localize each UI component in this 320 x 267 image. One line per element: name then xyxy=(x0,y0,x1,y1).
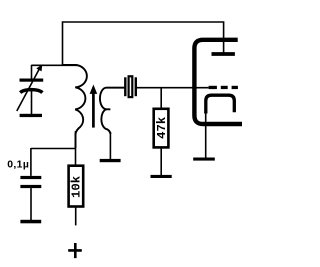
svg-text:10k: 10k xyxy=(69,175,83,198)
svg-text:0,1µ: 0,1µ xyxy=(7,160,29,171)
svg-text:47k: 47k xyxy=(155,116,169,139)
